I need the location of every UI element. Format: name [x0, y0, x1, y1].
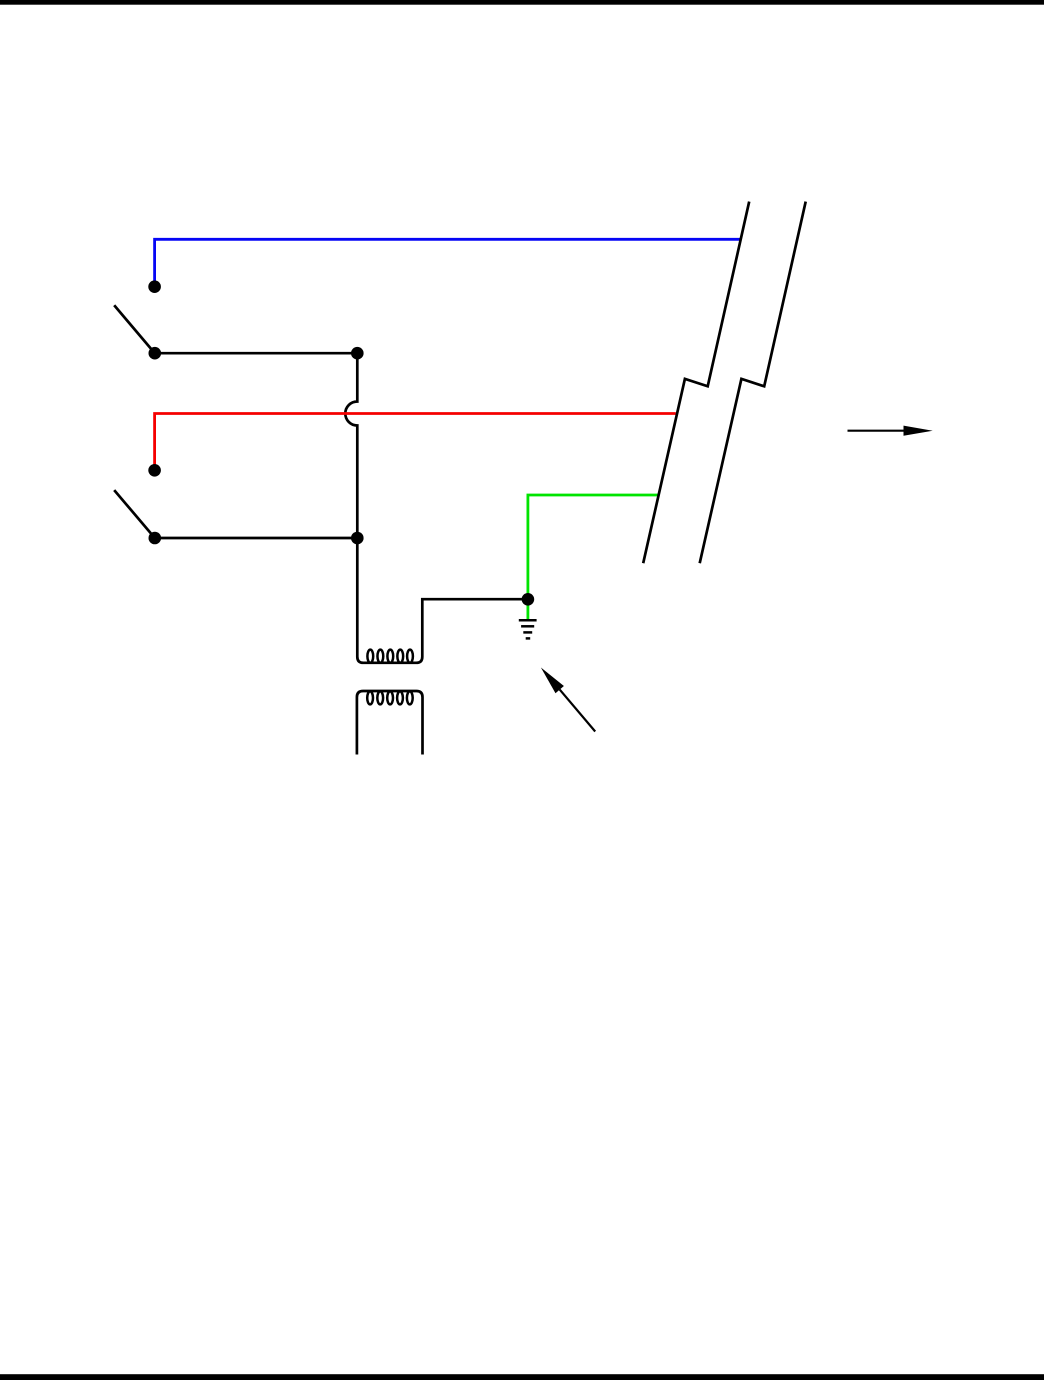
ground symbol bar 4	[526, 637, 531, 640]
wire blue (phase B lead)	[155, 239, 741, 287]
inductor L2 loop 3	[387, 691, 393, 704]
arrow callout to ground head	[541, 668, 564, 694]
node junction J1	[351, 347, 364, 360]
inductor L1 primary winding frame	[357, 538, 528, 663]
inductor L2 loop 4	[397, 691, 403, 704]
ground symbol bar 1	[519, 619, 537, 622]
ground symbol bar 2	[521, 625, 534, 628]
cable sheath line right with break	[700, 202, 806, 564]
node ground junction dot	[522, 593, 535, 606]
arrow right direction head	[904, 426, 933, 436]
inductor L2 loop 5	[407, 691, 413, 704]
top border bar	[0, 0, 1044, 5]
inductor L1 loop 4	[397, 650, 403, 663]
inductor L1 loop 1	[367, 650, 373, 663]
inductor L1 loop 3	[387, 650, 393, 663]
inductor L2 loop 2	[377, 691, 383, 704]
inductor L2 secondary winding frame	[357, 691, 423, 755]
cable sheath line left with break	[643, 202, 749, 564]
arrow callout to ground shaft	[560, 690, 596, 732]
node SW1 pole dot	[149, 347, 162, 360]
inductor L1 loop 5	[407, 650, 413, 663]
node red terminal dot	[148, 464, 161, 477]
inductor L2 loop 1	[367, 691, 373, 704]
ground symbol bar 3	[523, 631, 532, 634]
inductor L1 loop 2	[377, 650, 383, 663]
wire vertical bus with hop over red wire	[345, 353, 357, 538]
wire red (phase A lead)	[155, 414, 676, 471]
node SW2 pole dot	[149, 532, 162, 545]
node junction J2	[351, 532, 364, 545]
arrow right direction shaft	[848, 430, 905, 432]
switch SW1 blade	[114, 305, 155, 353]
wire SW1 to vertical bus	[155, 352, 357, 355]
wire SW2 to vertical bus	[155, 537, 357, 540]
bottom border bar	[0, 1374, 1044, 1380]
switch SW2 blade	[114, 490, 155, 538]
wire green (ground lead)	[528, 495, 658, 619]
node blue terminal dot	[148, 280, 161, 293]
